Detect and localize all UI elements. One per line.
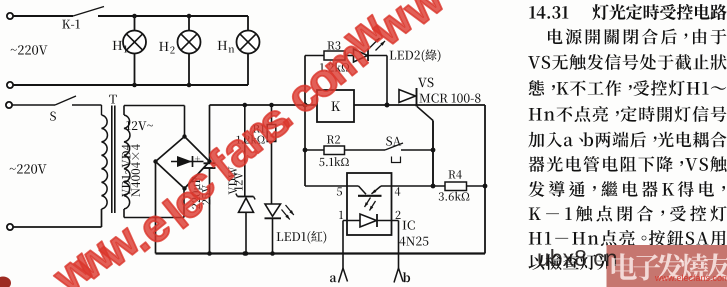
svg-text:ubx8 cn: ubx8 cn [537,245,618,271]
svg-text:www.elecfans.com: www.elecfans.com [654,273,727,283]
